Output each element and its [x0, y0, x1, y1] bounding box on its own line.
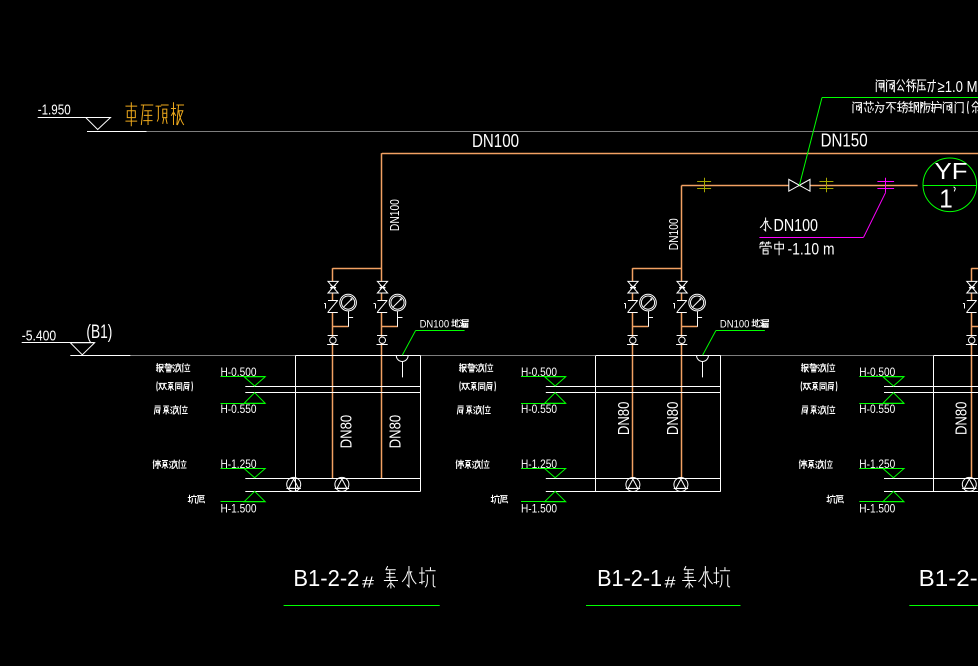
- svg-text:DN100: DN100: [720, 318, 750, 330]
- pit top edge (white): [295, 355, 420, 357]
- pit right wall: [720, 356, 722, 492]
- svg-text:(B1): (B1): [86, 322, 112, 343]
- flange pair on DN150 right: [819, 181, 833, 183]
- green level mark H-1.250: [859, 468, 904, 470]
- svg-text:-1.950: -1.950: [38, 102, 71, 119]
- svg-text:-5.400: -5.400: [22, 328, 57, 345]
- symbol circle YF-1 (tag bubble): [923, 158, 977, 212]
- svg-text:DN100: DN100: [666, 218, 681, 250]
- svg-text:H-0.550: H-0.550: [859, 402, 895, 416]
- text DN100 rotated on pit2 riser2: [666, 218, 681, 250]
- pit bottom line: [245, 491, 420, 493]
- text 启泵液位: [154, 406, 160, 414]
- svg-text:H-0.550: H-0.550: [521, 402, 557, 416]
- text 管中-1.10m: [760, 242, 771, 254]
- pit level line H-0.500: [884, 386, 978, 388]
- green level mark H-0.500: [221, 376, 266, 378]
- pump symbol at x=632.9: [626, 478, 640, 492]
- green level mark H-1.500: [521, 501, 566, 503]
- text 启泵液位: [457, 406, 463, 414]
- svg-text:DN80: DN80: [665, 402, 682, 436]
- pump symbol at x=680.9: [674, 478, 688, 492]
- svg-text:B1-2-2: B1-2-2: [293, 565, 359, 591]
- level symbol -1.950 underline: [38, 117, 111, 119]
- green level mark H-0.550: [221, 403, 266, 405]
- svg-text:H-1.500: H-1.500: [221, 501, 257, 515]
- gate valve on riser x=632.4: [628, 281, 638, 287]
- pump symbol at x=969.3: [962, 477, 976, 491]
- text 报警液位: [802, 364, 809, 372]
- flange pair on DN150 left: [697, 181, 711, 183]
- pump symbol at x=341.9: [335, 477, 349, 491]
- svg-text:1: 1: [939, 184, 953, 214]
- green leader to valve annotation: [799, 98, 822, 186]
- gate valve on riser x=381.9: [377, 281, 387, 287]
- text 闸阀公称压力>=1.0M annotation line1: [876, 80, 884, 92]
- pit top edge (white): [934, 355, 978, 357]
- text (双泵同启): [156, 382, 159, 391]
- pressure gauge on riser x=971.3: [971, 326, 978, 328]
- text DN80 rotated pit1 riser1: [338, 415, 355, 449]
- pit stop-pump level line: [245, 478, 420, 480]
- svg-text:-1.10 m: -1.10 m: [788, 240, 835, 259]
- pit left wall: [933, 356, 935, 492]
- text (双泵同启): [800, 382, 803, 391]
- text 坑底: [188, 495, 196, 503]
- union on riser x=381.9: [377, 335, 387, 337]
- union on riser x=681.5: [677, 335, 687, 337]
- svg-text:#: #: [362, 575, 374, 592]
- svg-text:DN100: DN100: [472, 131, 519, 151]
- pit bottom line: [884, 491, 978, 493]
- pit right wall: [420, 356, 422, 492]
- text DN80 rotated pit3 riser1: [954, 401, 971, 435]
- pressure gauge on riser x=681.5: [682, 326, 698, 328]
- svg-text:DN80: DN80: [388, 415, 405, 449]
- pit level line H-0.550: [884, 392, 978, 394]
- check valve on riser x=381.9: [377, 300, 387, 302]
- riser pipe segments x=332.5: [332, 268, 334, 281]
- svg-text:YF: YF: [935, 158, 968, 184]
- text 坑底: [491, 495, 499, 503]
- pit left wall: [295, 356, 297, 492]
- DN150 pipe: [682, 185, 918, 187]
- pressure gauge on riser x=632.4: [632, 326, 648, 328]
- green level mark H-0.500: [521, 376, 566, 378]
- green level mark H-0.500: [859, 376, 904, 378]
- svg-text:DN150: DN150: [821, 130, 868, 150]
- check valve on riser x=971.3: [967, 300, 977, 302]
- pit level line H-0.550: [245, 392, 420, 394]
- green level mark H-1.250: [221, 468, 266, 470]
- text 报警液位: [157, 364, 164, 372]
- text DN100 rotated on pit1 riser2: [387, 199, 402, 231]
- green level mark H-1.500: [221, 501, 266, 503]
- text 阀芯为不锈钢防护阀门 annotation line2: [853, 102, 861, 113]
- green underline pit3 label: [909, 605, 978, 607]
- svg-text:H-0.550: H-0.550: [221, 402, 257, 416]
- text DN80 rotated pit2 riser2: [665, 402, 682, 436]
- svg-text:DN80: DN80: [616, 402, 633, 436]
- pit left wall: [595, 356, 597, 492]
- check valve on riser x=681.5: [677, 300, 687, 302]
- gate valve on DN150: [789, 179, 800, 191]
- check valve on riser x=632.4: [628, 300, 638, 302]
- DN100 header pipe: [382, 153, 978, 155]
- pit bottom line: [546, 491, 721, 493]
- svg-text:B1-2-1: B1-2-1: [597, 565, 662, 591]
- pit3 riser link pipe: [971, 268, 978, 270]
- svg-text:DN80: DN80: [338, 415, 355, 449]
- text DN80 rotated pit1 riser2: [388, 415, 405, 449]
- text 坑底: [827, 495, 835, 503]
- magenta leader for 水DN100: [864, 192, 886, 237]
- floor drain at x=402.2: [396, 356, 408, 362]
- svg-text:≥1.0 M: ≥1.0 M: [938, 79, 978, 96]
- garage roof line (gray): [147, 131, 978, 133]
- green level mark H-1.500: [859, 501, 904, 503]
- union on riser x=632.4: [628, 335, 638, 337]
- svg-text:H-1.500: H-1.500: [521, 501, 557, 515]
- svg-text:B1-2-: B1-2-: [919, 565, 978, 591]
- roof level mark white segment: [87, 131, 147, 133]
- svg-text:DN80: DN80: [954, 401, 971, 435]
- riser pipe segments x=381.9: [381, 153, 383, 281]
- text 停泵液位: [799, 460, 806, 468]
- green leader floor drain pit1: [402, 331, 415, 356]
- B1 floor line (gray): [130, 355, 978, 357]
- gate valve on riser x=681.5: [677, 281, 687, 287]
- text 启泵液位: [802, 406, 808, 414]
- green underline pit1 label: [284, 605, 440, 607]
- riser pipe segments x=681.5: [681, 186, 683, 282]
- green level mark H-0.550: [521, 403, 566, 405]
- pit level line H-0.550: [546, 392, 721, 394]
- text 停泵液位: [153, 460, 160, 468]
- text 停泵液位: [456, 460, 463, 468]
- level symbol -1.950 triangle: [86, 118, 111, 130]
- text 报警液位: [460, 364, 467, 372]
- pit1 riser link pipe: [333, 268, 382, 270]
- floor drain at x=702.5: [697, 356, 709, 362]
- union on riser x=332.5: [328, 335, 338, 337]
- text DN80 rotated pit2 riser1: [616, 402, 633, 436]
- union on riser x=971.3: [966, 335, 976, 337]
- riser pipe segments x=971.3: [971, 268, 973, 281]
- svg-text:DN100: DN100: [774, 215, 819, 235]
- floor level mark white segment: [70, 355, 130, 357]
- pit level line H-0.500: [245, 386, 420, 388]
- pit top edge (white): [596, 355, 721, 357]
- svg-text:H-1.500: H-1.500: [859, 501, 895, 515]
- pit stop-pump level line: [546, 478, 721, 480]
- text 车库顶板 (garage roof slab): [126, 103, 137, 126]
- green underline pit2 label: [586, 605, 741, 607]
- svg-text:DN100: DN100: [420, 318, 450, 330]
- check valve on riser x=332.5: [328, 300, 338, 302]
- green leader floor drain pit2: [703, 331, 716, 356]
- pit2 riser link pipe: [632, 268, 681, 270]
- text (双泵同启): [459, 382, 462, 391]
- pit level line H-0.500: [546, 386, 721, 388]
- pit stop-pump level line: [884, 478, 978, 480]
- level symbol -5.400 underline: [22, 342, 95, 344]
- pressure gauge on riser x=381.9: [382, 326, 398, 328]
- text 水DN100: [760, 218, 771, 231]
- flange (magenta) on DN150: [877, 181, 894, 183]
- riser pipe segments x=632.4: [632, 268, 634, 281]
- pump symbol at x=293.7: [287, 477, 301, 491]
- green level mark H-0.550: [859, 403, 904, 405]
- gate valve on riser x=332.5: [328, 281, 338, 287]
- level symbol -5.400 triangle: [70, 343, 94, 355]
- gate valve on riser x=971.3: [967, 281, 977, 287]
- svg-text:DN100: DN100: [387, 199, 402, 231]
- pressure gauge on riser x=332.5: [333, 326, 349, 328]
- svg-text:#: #: [665, 575, 676, 592]
- green level mark H-1.250: [521, 468, 566, 470]
